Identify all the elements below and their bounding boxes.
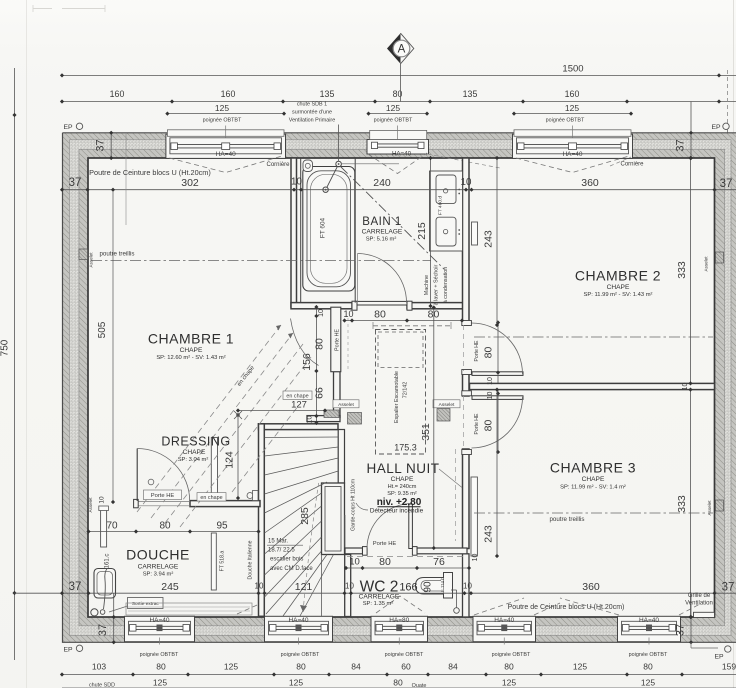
svg-text:135: 135 [320,89,335,99]
washbasin bain 1 [436,175,460,204]
wall stairwell west [259,424,265,617]
svg-text:SP: 3.04 m²: SP: 3.04 m² [178,457,209,463]
window bottom chambre3 left HA=40 [473,616,536,644]
asselet block left wall [79,249,94,268]
window bottom douche HA=40 [125,616,195,644]
svg-text:121: 121 [295,581,313,593]
wall bain west [291,158,297,307]
svg-text:SP: 11.99 m² - SV: 1.43 m²: SP: 11.99 m² - SV: 1.43 m² [584,292,653,298]
wall wc east [463,554,470,617]
svg-text:80: 80 [313,338,325,350]
svg-text:CHAMBRE 3: CHAMBRE 3 [550,460,636,476]
svg-text:CARRELAGE: CARRELAGE [359,594,400,601]
svg-text:poignée OBTBT: poignée OBTBT [281,652,320,658]
svg-text:127: 127 [291,400,307,411]
svg-text:Garde-corps Ht 110cm: Garde-corps Ht 110cm [351,479,357,531]
svg-text:Sortie extrac: Sortie extrac [132,601,160,607]
svg-text:240: 240 [373,177,391,189]
svg-text:15 Mar.: 15 Mar. [268,539,288,545]
garde-corps label [351,479,357,531]
svg-text:1500: 1500 [562,63,583,74]
svg-text:360: 360 [581,177,599,189]
svg-text:750: 750 [0,339,11,356]
svg-text:76: 76 [433,556,445,568]
grille ventilation [685,593,714,618]
EP marker top-right [711,70,729,133]
svg-text:FT 518.a: FT 518.a [220,551,226,572]
svg-text:poignée OBTBT: poignée OBTBT [629,652,668,658]
svg-text:Porte HE: Porte HE [151,493,175,499]
window top-left HA=40 (chambre 1) [166,126,286,173]
svg-text:Poutre de Ceinture blocs U (Ht: Poutre de Ceinture blocs U (Ht.20cm) [508,604,625,611]
room dressing sub [178,449,209,463]
svg-text:37: 37 [720,178,733,190]
bathtub head fixture [303,160,313,172]
svg-text:80: 80 [393,678,403,688]
svg-text:18.7/ 22.5: 18.7/ 22.5 [268,548,295,554]
svg-text:avec CM D.face: avec CM D.face [270,566,313,572]
jamb bain door right [407,301,412,310]
asselet block hall [433,400,460,421]
svg-text:37: 37 [675,139,687,151]
svg-text:160: 160 [565,89,580,99]
dim row B [60,89,736,103]
radiator chambre3 [471,477,477,556]
dashed wall-face at door openings [463,325,465,448]
wall wc north left [345,548,363,554]
svg-text:EP: EP [714,654,724,661]
svg-text:125: 125 [573,662,587,672]
washbasin bain 2 [436,217,460,246]
sheet edge right [733,0,735,688]
window bottom chambre3 right HA=40 [618,616,681,644]
svg-text:DOUCHE: DOUCHE [126,547,190,563]
asselet block right wall upper [704,252,724,272]
svg-text:en chape: en chape [286,393,308,399]
door wc arc [367,504,412,549]
asselet block hall-west [324,410,339,418]
svg-text:A: A [398,44,406,56]
wall hall east pier [463,374,470,396]
svg-text:Ventilation: Ventilation [685,601,713,607]
svg-text:FT 604: FT 604 [320,217,327,238]
svg-text:66: 66 [313,387,325,399]
svg-text:302: 302 [181,177,199,189]
svg-text:CHAMBRE 1: CHAMBRE 1 [148,331,234,347]
vanity counter bain [430,171,463,251]
svg-text:10: 10 [291,177,302,188]
poignee labels top [203,118,585,124]
svg-text:Espalier Escamotable: Espalier Escamotable [394,371,400,423]
room hallnuit niveau [377,497,422,508]
svg-text:90: 90 [423,581,434,593]
dim 10 wc top [472,554,479,562]
chute diagonal to machine [341,167,445,270]
svg-text:Douche Italienne: Douche Italienne [248,540,254,579]
outer wall insulation ring [70,140,732,636]
svg-text:CHAPE: CHAPE [607,284,630,291]
svg-text:Porte HE: Porte HE [474,340,480,362]
dim row bottom 1 [60,662,736,677]
svg-text:SP: 3.94 m²: SP: 3.94 m² [143,572,174,578]
poutre treillis chambre3 label [549,516,584,523]
svg-text:156: 156 [301,353,313,371]
douche extraction circles [91,609,105,616]
poignee labels bottom [140,652,668,658]
svg-text:80: 80 [483,347,495,359]
jamb bain door left [352,301,357,310]
door dressing leaf [136,449,138,502]
poutre ceinture label bottom [508,604,625,611]
svg-text:84: 84 [448,662,458,672]
bathtub label [320,217,327,238]
porte HE labels chambre2-3 doors [474,340,480,435]
window top-middle HA=40 (bain 1) [367,126,429,174]
svg-text:poignée OBTBT: poignée OBTBT [140,652,179,658]
svg-text:à condensation: à condensation [443,267,449,304]
wall wc west [345,515,351,617]
svg-text:10: 10 [472,554,479,562]
dim 124 dressing [224,411,243,500]
svg-text:10: 10 [318,309,325,317]
svg-text:124: 124 [224,451,236,469]
door bain arc [358,254,407,303]
svg-text:161.c: 161.c [105,554,111,569]
jamb wc door right [412,547,417,556]
svg-text:poignée OBTBT: poignée OBTBT [385,652,424,658]
asselet block right wall lower [707,500,724,516]
svg-text:80: 80 [156,662,166,672]
svg-text:10: 10 [255,582,264,591]
svg-text:333: 333 [676,495,688,513]
svg-text:EP: EP [711,124,721,131]
sheet fold line left [26,0,28,688]
extension line x126 [125,133,127,225]
window bottom stair HA=40 [265,616,333,644]
door chambre2 arc [472,323,523,374]
shower screen FT 518.a [211,533,216,590]
svg-text:CHAPE: CHAPE [391,476,414,483]
svg-text:HA=40: HA=40 [216,151,236,158]
svg-text:80: 80 [393,89,403,99]
jamb douche door [134,499,139,507]
svg-text:surmontée d'une: surmontée d'une [292,110,332,116]
svg-text:80: 80 [483,420,495,432]
room chambre1 sub [156,347,225,361]
svg-text:245: 245 [161,581,179,593]
chute SDB leader circles [323,125,399,193]
svg-text:HA=40: HA=40 [288,617,308,624]
EP marker bottom-right [691,642,731,660]
chute SDB note [289,102,335,124]
svg-text:243: 243 [483,525,495,543]
svg-text:poignée OBTBT: poignée OBTBT [203,118,242,124]
svg-text:SP: 12.60 m² - SV: 1.43 m²: SP: 12.60 m² - SV: 1.43 m² [156,355,225,361]
wall hall west lower [334,372,341,418]
ft518 label [220,551,226,572]
dim 505 line [97,188,115,505]
svg-text:351: 351 [420,423,432,441]
svg-text:LE.114.b: LE.114.b [440,577,445,595]
dim row 1500 [60,63,736,77]
room chambre2 title [575,268,661,284]
svg-text:CHAPE: CHAPE [582,476,605,483]
dim row douche doors [86,521,260,534]
wc toilet LE.114.b [416,573,453,599]
svg-text:125: 125 [565,103,579,113]
espalier label [394,371,409,423]
wc drain [451,590,459,613]
svg-text:Machine: Machine [424,275,430,295]
porte HE label wc [373,541,397,547]
svg-text:Asselet: Asselet [439,402,455,408]
dim 333 chambre2 [676,156,693,386]
svg-text:HA=40: HA=40 [392,150,412,157]
en chape boxed label 1 [283,391,312,399]
EP marker bottom-left [63,645,82,653]
dim line chambre2-3 doors [496,320,500,454]
svg-text:10: 10 [463,582,472,591]
dim row bottom 2 [62,678,736,688]
stair dim 285 [299,507,311,525]
svg-text:360: 360 [582,581,600,593]
shower tray douche [94,569,116,599]
outer wall inner layer lines [70,140,732,636]
svg-text:SP: 5.16 m²: SP: 5.16 m² [366,237,397,243]
EP marker top-left [63,123,82,131]
svg-text:10: 10 [487,392,494,400]
le114 label [440,577,445,595]
svg-text:285: 285 [299,507,311,525]
svg-text:60: 60 [401,662,411,672]
svg-text:175.3: 175.3 [394,443,417,453]
room douche sub [138,564,179,578]
svg-text:37: 37 [95,139,107,151]
wall bain south left [291,303,352,309]
dim 215 bain [416,156,433,308]
svg-text:80: 80 [428,309,440,321]
svg-text:FT 460.d: FT 460.d [438,196,444,215]
en chape boxed label 2 [197,493,226,501]
svg-text:HA=40: HA=40 [562,151,582,158]
door bain leaf [357,301,407,305]
room chambre3 title [550,460,636,476]
wall douche north [190,501,260,507]
window top-right HA=40 (chambre 2) [513,126,633,173]
dim 127 en chape [236,400,327,413]
door chambre3 arc [472,397,523,448]
garde-corps landing [322,483,345,555]
svg-text:Cornière: Cornière [620,162,644,168]
dim 351 hall [420,305,436,550]
wc dashed line [347,556,464,558]
door dressing curl [148,479,154,485]
cornière label right [620,162,644,168]
room douche title [126,547,190,563]
door chambre1 leaf (Porte HE) [331,307,341,372]
svg-text:EP: EP [63,647,73,654]
asselet label hall-west [333,400,359,408]
dim row C windows [165,103,633,116]
svg-text:505: 505 [97,321,108,338]
svg-text:10: 10 [487,377,494,385]
dim 37 vertical bottom-right [675,593,694,644]
svg-text:HA=40: HA=40 [639,617,659,624]
svg-text:HA=40: HA=40 [494,617,514,624]
svg-text:166: 166 [399,582,417,594]
jamb wc door left [363,547,368,556]
svg-text:poignée OBTBT: poignée OBTBT [546,118,585,124]
wall hall east (bain-chambre2) [463,158,470,325]
svg-text:10: 10 [99,496,106,504]
washbasin label FT 460.d [438,196,444,215]
outer wall inner face [88,158,715,617]
svg-text:Porte HE: Porte HE [335,329,341,351]
svg-text:Asselet: Asselet [88,497,93,513]
wall bain south right [407,303,464,309]
douche italienne label [248,540,254,579]
wall hall east lower [463,449,470,549]
dim 750 line [0,68,17,660]
svg-text:37: 37 [675,624,687,636]
svg-text:215: 215 [416,222,428,240]
svg-text:160: 160 [110,89,125,99]
poutre treillis chambre3 axis [474,512,713,514]
svg-text:poutre treillis: poutre treillis [99,251,134,258]
svg-text:80: 80 [159,521,171,532]
svg-text:84: 84 [351,662,361,672]
window bottom wc HA=80 [371,616,428,644]
svg-text:80: 80 [296,662,306,672]
svg-text:CHAMBRE 2: CHAMBRE 2 [575,268,661,284]
161c label [105,554,111,569]
svg-text:333: 333 [676,261,688,279]
hall east dashed nu line [455,449,457,541]
wall wc north right [417,548,467,554]
wall stair east upper [338,430,344,484]
dim line y190 [60,177,736,192]
svg-text:Asselet: Asselet [89,252,94,268]
stair note [267,539,313,573]
room hallnuit detecteur [356,503,424,514]
svg-text:SP: 11.99 m² - SV: 1.4 m²: SP: 11.99 m² - SV: 1.4 m² [560,485,626,491]
svg-text:chute SDB 1: chute SDB 1 [297,102,327,108]
cornière label left [266,162,290,168]
room chambre1 title [148,331,234,347]
svg-text:70: 70 [106,521,118,532]
svg-text:37: 37 [97,624,109,636]
svg-text:DRESSING: DRESSING [161,435,230,449]
jambs chambre2-3 doors [462,321,472,455]
svg-text:HA=80: HA=80 [389,617,409,624]
svg-text:10: 10 [461,177,472,188]
svg-text:80: 80 [379,556,391,568]
svg-text:escalier bois: escalier bois [270,557,303,563]
svg-text:CARRELAGE: CARRELAGE [362,229,403,236]
dim 80 chambre2 door [483,347,495,432]
svg-text:HALL NUIT: HALL NUIT [366,461,439,476]
dim row y593 [15,581,736,595]
svg-text:en chape: en chape [200,495,222,501]
room hallnuit sub [387,476,417,497]
svg-text:Grille de: Grille de [688,593,711,599]
svg-text:80: 80 [643,662,653,672]
svg-text:125: 125 [215,103,229,113]
stair wall valve [247,491,258,501]
svg-text:10: 10 [307,416,314,424]
svg-text:80: 80 [374,309,386,321]
dim 37 vertical top-left [95,131,114,160]
stair treads [265,437,339,616]
room dressing title [161,435,230,449]
svg-text:159: 159 [722,662,736,672]
dim col bain doors [342,309,464,323]
radiator chambre2 [472,222,478,245]
svg-text:Cornière: Cornière [266,162,290,168]
svg-text:80: 80 [504,662,514,672]
room wc2 sub [359,594,400,608]
svg-text:103: 103 [92,662,106,672]
poutre ceinture label top [89,168,211,177]
dim 333 chambre3 [676,388,693,620]
en chape diagonal label [237,365,256,387]
door chambre3 leaf [472,396,523,400]
svg-text:BAIN 1: BAIN 1 [362,216,401,228]
svg-text:160: 160 [221,89,236,99]
dim 175.3 hall [394,443,417,453]
svg-text:Ht.= 240cm: Ht.= 240cm [388,484,417,490]
svg-text:125: 125 [153,678,167,688]
svg-text:Asselet: Asselet [338,402,354,408]
svg-text:125: 125 [289,678,303,688]
svg-text:EP: EP [63,124,73,131]
dim 37 vertical top-right [675,102,694,161]
door chambre1 arc [291,319,319,366]
dim 37 vertical bottom-left [97,593,116,644]
cornière dashes right [427,154,631,168]
bathtub niche walls [301,158,356,303]
svg-text:à laver + Séchoir: à laver + Séchoir [434,264,440,305]
svg-text:Asselet: Asselet [704,256,709,272]
poutre treillis chambre1 label [99,251,134,258]
poutre treillis chambre2 axis [474,336,713,338]
douche floor grating [126,603,252,615]
svg-text:125: 125 [502,678,516,688]
svg-text:10: 10 [349,557,360,568]
svg-text:10: 10 [343,309,353,319]
svg-text:37: 37 [69,177,82,189]
svg-text:CARRELAGE: CARRELAGE [138,564,179,571]
svg-text:Porte HE: Porte HE [373,541,397,547]
room bain1 title [362,216,401,228]
faint top marks [33,5,105,12]
door chambre2 leaf [472,372,523,376]
asselet left wall lower [88,496,106,513]
svg-text:CHAPE: CHAPE [183,449,206,456]
espalier inner dashed rect [378,332,423,368]
door wc leaf [409,504,413,549]
douche pipe [104,568,108,609]
stair walking line [300,481,319,612]
svg-text:chute SDD: chute SDD [89,683,115,688]
svg-text:SP: 1.35 m²: SP: 1.35 m² [363,601,394,607]
hall dashed top [373,322,451,329]
svg-text:Détecteur incendie: Détecteur incendie [370,507,424,514]
svg-text:HA=40: HA=40 [149,617,169,624]
svg-text:CHAPE: CHAPE [180,347,203,354]
svg-text:125: 125 [386,103,400,113]
dim 10-10 chambre23 wall [487,377,689,399]
